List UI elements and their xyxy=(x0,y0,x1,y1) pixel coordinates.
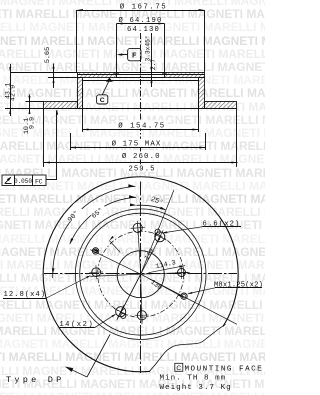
label 14(x2) xyxy=(59,314,116,329)
extension lines Ø167.75 xyxy=(77,10,205,73)
brake disc section left friction band (hatched) xyxy=(44,102,78,109)
Type DP leader xyxy=(65,335,110,378)
runout tolerance frame xyxy=(2,175,46,186)
label 12.8(x4) xyxy=(3,275,91,299)
svg-text:C: C xyxy=(176,365,181,372)
extension line flange bottom left xyxy=(48,77,78,79)
chamfer dim 3.3x45 and 2.7 xyxy=(145,33,158,87)
datum C leader triangle xyxy=(102,78,113,95)
hat inner ceiling line xyxy=(83,80,199,82)
hole Ø14 lower-left xyxy=(114,305,127,318)
label 65deg xyxy=(87,200,108,220)
angular dim arc 25deg xyxy=(130,203,166,210)
extension lines Ø175 xyxy=(71,133,206,150)
front view center bore circle xyxy=(117,251,164,298)
radial centerline to hole h2 (67deg) xyxy=(141,190,174,274)
bolt hole Ø12.8 top xyxy=(131,221,145,235)
threaded hole M8 upper-left xyxy=(92,248,99,254)
bolt hole Ø12.8 left xyxy=(89,265,103,279)
svg-text:2.7: 2.7 xyxy=(150,59,157,70)
front view hat circle Ø167.75 xyxy=(75,209,206,340)
radial centerline to left lug hole xyxy=(90,274,140,276)
dimension line Ø64.190/64.130 xyxy=(117,16,165,34)
disc bottom visible line xyxy=(5,108,237,110)
threaded hole M8 lower-right xyxy=(181,293,187,299)
svg-text:Type DP: Type DP xyxy=(6,375,65,385)
dimension line Ø154.75 xyxy=(83,121,199,131)
svg-text:3.3x45°: 3.3x45° xyxy=(145,36,152,62)
angular dim arc 65deg xyxy=(70,195,136,244)
svg-text:42.9: 42.9 xyxy=(9,85,17,101)
extension lines Ø154.75 xyxy=(83,109,199,133)
svg-text:130: 130 xyxy=(149,279,164,293)
datum F leader xyxy=(117,53,128,55)
svg-text:0.050: 0.050 xyxy=(14,178,32,185)
radial centerline to bottom lug hole xyxy=(141,274,142,324)
note mounting face xyxy=(175,363,263,373)
dim 10.1/9.9 xyxy=(23,95,37,135)
front view outer circle Ø260 xyxy=(43,177,238,372)
hole Ø6.6 lower-left xyxy=(121,313,126,318)
svg-text:5.65: 5.65 xyxy=(44,47,52,63)
svg-text:25°: 25° xyxy=(150,195,165,208)
svg-text:Ø 64.190: Ø 64.190 xyxy=(118,16,162,25)
svg-text:M8x1.25(x2): M8x1.25(x2) xyxy=(214,282,263,290)
horizontal centerline front view xyxy=(44,273,237,275)
hat inner wall lines xyxy=(83,80,199,109)
label 6.6(x2) xyxy=(162,220,241,233)
dim 130 radial xyxy=(149,279,184,298)
label 90deg xyxy=(63,203,85,225)
flange bottom line across bore xyxy=(117,77,165,79)
svg-text:Ø 260.0: Ø 260.0 xyxy=(122,152,161,161)
dim 5.65 xyxy=(44,47,54,88)
svg-text:FC: FC xyxy=(35,178,43,185)
flange chamfer edge line xyxy=(78,74,205,76)
front view PCD circle 114.3 (dashed) xyxy=(98,231,184,317)
datum C box xyxy=(97,95,108,104)
brake disc section right hat wall (hatched) xyxy=(199,78,205,109)
bore chamfer left V xyxy=(114,73,119,75)
bore chamfer right V xyxy=(162,73,167,75)
front view hat circle Ø154.75 xyxy=(80,213,202,335)
svg-text:MOUNTING FACE: MOUNTING FACE xyxy=(185,365,264,373)
svg-text:Ø 167.75: Ø 167.75 xyxy=(120,2,167,11)
extension lines Ø260 xyxy=(44,109,237,168)
label Type DP xyxy=(6,375,65,385)
mystery arrow upper-left xyxy=(109,236,120,252)
brake disc section right flange (hatched) xyxy=(165,73,205,78)
svg-text:Weight 3.7 Kg: Weight 3.7 Kg xyxy=(160,384,232,392)
radial centerline M8 hole lower-right xyxy=(141,274,237,324)
extension line band top left xyxy=(26,101,44,103)
svg-text:64.130: 64.130 xyxy=(127,26,160,34)
dim 118 diameter line xyxy=(120,235,161,314)
radial centerline to hole h5 (242deg) xyxy=(117,274,141,320)
svg-text:6.6(x2): 6.6(x2) xyxy=(203,220,241,228)
dimension line Ø260.0/259.5 xyxy=(44,151,238,173)
angular dim arc 90deg xyxy=(52,184,135,278)
svg-text:Ø 175 MAX: Ø 175 MAX xyxy=(112,139,162,148)
datum target F box xyxy=(128,48,141,60)
extension lines bore xyxy=(117,24,165,73)
svg-text:259.5: 259.5 xyxy=(128,166,155,174)
dim 43.1/42.9 xyxy=(5,64,18,116)
svg-text:12.8(x4): 12.8(x4) xyxy=(4,291,47,299)
brake disc section left flange (hatched) xyxy=(78,73,117,78)
radial centerline M8 hole upper-left xyxy=(90,250,140,275)
svg-text:9.9: 9.9 xyxy=(29,117,37,129)
runout frame leader xyxy=(46,109,58,179)
hole Ø6.6 upper-right xyxy=(155,229,160,234)
brake disc section left hat wall (hatched) xyxy=(78,78,83,109)
label 25deg xyxy=(150,195,165,208)
bolt hole Ø12.8 bottom xyxy=(135,308,149,322)
radial centerline to right lug hole xyxy=(141,272,190,274)
note weight xyxy=(160,384,232,392)
dimension line Ø175 MAX xyxy=(70,139,206,149)
svg-text:Min. TH 8 mm: Min. TH 8 mm xyxy=(160,375,227,383)
dim 114.3 radial xyxy=(149,259,186,272)
note min thickness xyxy=(160,375,227,383)
dimension line Ø167.75 xyxy=(77,2,205,11)
svg-text:118: 118 xyxy=(143,247,157,262)
svg-text:C: C xyxy=(100,97,105,104)
section centerline (axis) xyxy=(140,33,142,171)
vertical centerline front view xyxy=(140,182,142,374)
svg-text:Ø 154.75: Ø 154.75 xyxy=(118,122,165,131)
label M8x1.25(x2) xyxy=(187,282,263,294)
flange top line across bore xyxy=(117,72,165,74)
extension line flange top left xyxy=(10,72,77,74)
brake disc section right friction band (hatched) xyxy=(205,102,237,109)
svg-text:F: F xyxy=(132,53,137,60)
radial centerline to top lug hole xyxy=(138,224,141,274)
bolt hole Ø12.8 right xyxy=(175,266,188,279)
break line (freehand) xyxy=(149,324,225,371)
hole Ø14 upper-right xyxy=(153,230,166,243)
